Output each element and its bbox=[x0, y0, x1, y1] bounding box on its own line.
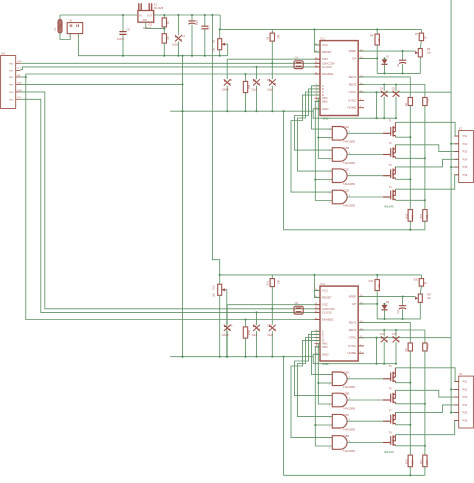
svg-text:R12: R12 bbox=[407, 459, 409, 464]
capacitor C10 100nF bbox=[204, 15, 206, 26]
wire phase A to gate bbox=[312, 331, 333, 374]
wire switch to GND rail bbox=[78, 34, 227, 56]
wire VREF bottom net bbox=[377, 57, 420, 74]
svg-text:C9: C9 bbox=[229, 324, 233, 328]
resistor R19 bbox=[376, 275, 378, 280]
svg-text:IRL640: IRL640 bbox=[384, 450, 394, 454]
svg-text:SYNC: SYNC bbox=[348, 344, 356, 348]
svg-text:74AC08N: 74AC08N bbox=[343, 449, 355, 453]
svg-text:ENABLE: ENABLE bbox=[322, 318, 333, 322]
svg-text:DCJ025: DCJ025 bbox=[154, 6, 164, 10]
wire sense vertical A bbox=[409, 106, 411, 210]
svg-text:IC2C: IC2C bbox=[343, 167, 349, 171]
DC jack X1 pins bbox=[139, 3, 152, 10]
svg-text:C13: C13 bbox=[380, 333, 385, 336]
IC4 left pin stubs bbox=[315, 289, 320, 291]
svg-text:PS6: PS6 bbox=[463, 174, 468, 177]
svg-text:EN: EN bbox=[17, 75, 20, 77]
AND gate IC2B bbox=[332, 148, 347, 162]
wire gate IC5A output bbox=[347, 378, 383, 380]
svg-text:CLOCK: CLOCK bbox=[322, 65, 332, 69]
svg-text:SV1: SV1 bbox=[1, 52, 6, 55]
capacitor C3 bbox=[402, 51, 404, 60]
svg-text:0R5: 0R5 bbox=[413, 214, 415, 219]
svg-text:SYNC: SYNC bbox=[348, 98, 356, 102]
svg-text:74AC08N: 74AC08N bbox=[343, 385, 355, 389]
transistor T7 IRL640 bbox=[383, 420, 390, 422]
AND gate IC2C bbox=[332, 169, 347, 183]
svg-text:74AC08N: 74AC08N bbox=[343, 140, 355, 144]
svg-text:33pF: 33pF bbox=[267, 333, 273, 337]
voltage regulator IC3 LM317L bbox=[138, 11, 154, 23]
IC1 right pin stubs bbox=[358, 50, 364, 52]
resistor R4 bbox=[376, 29, 378, 34]
AND gate IC5B bbox=[332, 393, 347, 407]
svg-text:RESET: RESET bbox=[322, 295, 332, 299]
svg-text:IC2A: IC2A bbox=[343, 125, 349, 129]
connector SV1 box bbox=[1, 56, 16, 109]
svg-text:100uF: 100uF bbox=[172, 44, 180, 47]
svg-text:R10: R10 bbox=[427, 343, 430, 348]
wire H/F net bbox=[358, 303, 377, 305]
svg-text:PS5: PS5 bbox=[463, 412, 468, 415]
svg-text:R19: R19 bbox=[369, 280, 374, 283]
wire gate IC2C output bbox=[347, 175, 383, 177]
wire sense vertical A bbox=[409, 351, 411, 455]
resistor R10 bbox=[423, 98, 427, 106]
AND gate IC2A bbox=[332, 127, 347, 141]
wire regulator ADJ bbox=[146, 22, 165, 28]
wire SENS1 net bbox=[358, 77, 410, 98]
svg-text:SEN1: SEN1 bbox=[349, 75, 357, 79]
svg-text:HOME: HOME bbox=[348, 106, 357, 110]
wire trimmer R16 to GND bus bbox=[219, 295, 221, 356]
svg-text:0R5: 0R5 bbox=[427, 214, 429, 219]
svg-text:HOME: HOME bbox=[348, 351, 357, 355]
wire INH1 to gates bbox=[318, 98, 332, 158]
wire phase C to gate bbox=[298, 92, 333, 171]
svg-text:74AC08N: 74AC08N bbox=[343, 203, 355, 207]
svg-text:CLOCK: CLOCK bbox=[322, 310, 332, 314]
resistor R12 sense bbox=[408, 210, 412, 222]
svg-text:IC5A: IC5A bbox=[343, 370, 349, 374]
capacitor C8 100nF bbox=[122, 15, 124, 31]
resistor R11 bbox=[245, 74, 247, 81]
transistor T5 IRL640 bbox=[383, 378, 390, 380]
svg-text:IN: IN bbox=[139, 14, 142, 17]
resistor R1 bbox=[163, 15, 165, 18]
svg-text:CTRL: CTRL bbox=[349, 90, 357, 94]
svg-text:SEN2: SEN2 bbox=[349, 328, 357, 332]
svg-text:UP: UP bbox=[352, 56, 356, 60]
wire VCC/RESET to IC1 bbox=[315, 29, 321, 52]
svg-text:GND: GND bbox=[322, 352, 328, 356]
wire CTRL net bbox=[358, 337, 451, 339]
resistor R10b bbox=[423, 343, 427, 351]
wire INH1 to gates bbox=[318, 344, 332, 404]
wire VCC/RESET to IC4 bbox=[315, 275, 321, 298]
capacitor C7 100uF bbox=[177, 15, 179, 35]
resistor R6b bbox=[408, 343, 412, 351]
wire GND long vertical bbox=[182, 56, 184, 357]
wire gate IC5D output bbox=[347, 442, 383, 444]
svg-text:C10: C10 bbox=[207, 25, 210, 30]
svg-text:74AC08N: 74AC08N bbox=[343, 428, 355, 432]
wire phase A to gate bbox=[312, 86, 333, 129]
AND gate IC5D bbox=[332, 436, 347, 450]
wire row4 GND bbox=[21, 83, 183, 85]
crystal Q1 bbox=[294, 61, 303, 69]
resistor R7 bbox=[420, 29, 422, 33]
svg-text:IC5D: IC5D bbox=[343, 434, 349, 438]
svg-text:PS3: PS3 bbox=[463, 151, 468, 154]
IC4 right pin stubs bbox=[358, 296, 364, 298]
wire phase D to gate bbox=[291, 341, 332, 438]
trimmer R16 bottom half bbox=[219, 275, 221, 284]
transistor T8 IRL640 bbox=[383, 442, 390, 444]
svg-text:R17: R17 bbox=[427, 293, 432, 296]
svg-text:R18: R18 bbox=[247, 331, 250, 336]
wire OSC net bbox=[227, 304, 320, 306]
junction dots oscillator nets bbox=[271, 308, 273, 310]
wire GND pin of IC1 bbox=[313, 109, 396, 118]
IC1 left pin stubs bbox=[315, 44, 320, 46]
wire GND bus bbox=[170, 110, 313, 112]
fuse F1 bbox=[59, 15, 61, 20]
trimmer R17 bbox=[418, 294, 422, 302]
wire sense vertical B bbox=[424, 106, 426, 210]
wire H/F net bbox=[358, 57, 377, 59]
svg-text:0R5: 0R5 bbox=[413, 460, 415, 465]
wire VS to connector pins 2 and 5 bbox=[451, 388, 459, 390]
wire drain C to connector pin4 bbox=[395, 159, 458, 167]
trimmer R5 bbox=[418, 49, 422, 57]
svg-text:3k3: 3k3 bbox=[277, 35, 280, 40]
svg-text:R15: R15 bbox=[266, 280, 269, 285]
svg-text:74AC08N: 74AC08N bbox=[343, 182, 355, 186]
svg-text:GND: GND bbox=[17, 82, 22, 84]
svg-text:CTRL: CTRL bbox=[349, 336, 357, 340]
svg-text:C1: C1 bbox=[229, 78, 233, 82]
wire phase B to gate bbox=[295, 334, 333, 395]
svg-text:PS4: PS4 bbox=[463, 158, 468, 161]
wire INH2 to gates bbox=[315, 101, 332, 200]
wire VCC long vertical to bottom half bbox=[212, 15, 421, 275]
svg-text:CW1: CW1 bbox=[17, 61, 23, 63]
wire drain B to connector pin3 bbox=[395, 390, 458, 397]
AND gate IC2D bbox=[332, 190, 347, 204]
wire CTRL net bbox=[358, 91, 451, 93]
svg-text:R13: R13 bbox=[421, 213, 423, 218]
svg-text:74AC08N: 74AC08N bbox=[343, 406, 355, 410]
svg-text:22pF: 22pF bbox=[252, 88, 258, 92]
svg-text:PS2: PS2 bbox=[463, 143, 468, 146]
wire INH2 to gates bbox=[315, 347, 332, 446]
svg-text:0R5: 0R5 bbox=[427, 460, 429, 465]
svg-text:IC2D: IC2D bbox=[343, 189, 349, 193]
svg-text:R20: R20 bbox=[414, 279, 419, 282]
resistor R15 bbox=[271, 275, 273, 279]
svg-text:R16: R16 bbox=[213, 285, 216, 290]
wire VREF net bbox=[358, 50, 415, 52]
wire gate IC5B output bbox=[347, 399, 383, 401]
svg-text:GND: GND bbox=[323, 116, 329, 120]
svg-text:100nF: 100nF bbox=[117, 37, 125, 41]
resistor R18 bbox=[245, 320, 247, 327]
wire GND pin of IC4 bbox=[313, 354, 396, 363]
svg-text:CW2: CW2 bbox=[17, 90, 23, 92]
svg-text:UP: UP bbox=[352, 302, 356, 306]
wire drain D to connector pin6 bbox=[395, 420, 458, 434]
transistor T3 IRL640 bbox=[383, 175, 390, 177]
wire gate IC2D output bbox=[347, 196, 383, 198]
svg-text:GND: GND bbox=[323, 362, 329, 366]
wire drain D to connector pin6 bbox=[395, 175, 458, 189]
AND gate IC5C bbox=[332, 414, 347, 428]
svg-text:R12: R12 bbox=[407, 213, 409, 218]
capacitor C16 100uF bbox=[191, 15, 193, 20]
wire VCC rail from regulator OUT bbox=[154, 14, 221, 16]
wire row1 CW/CCW to IC1 bbox=[21, 62, 320, 64]
capacitor C5 bbox=[395, 85, 397, 92]
transistor T4 IRL640 bbox=[383, 196, 390, 198]
wire GND bus bbox=[170, 356, 313, 358]
svg-text:100nF: 100nF bbox=[222, 88, 230, 92]
resistor R2 bbox=[162, 34, 166, 43]
wire row5 to bottom CW/CCW bbox=[21, 92, 320, 309]
svg-text:C2: C2 bbox=[253, 78, 257, 82]
trimmer R8 top bbox=[219, 29, 221, 38]
capacitor C6 22pF bbox=[271, 63, 273, 79]
wire trimmer R8 to GND rail bbox=[219, 50, 221, 56]
svg-text:IC5C: IC5C bbox=[343, 413, 349, 417]
wire row6 to bottom CLOCK bbox=[21, 99, 320, 312]
wire drain B to connector pin3 bbox=[395, 145, 458, 152]
diode D1 bbox=[384, 58, 386, 59]
wire OSC net bbox=[227, 58, 320, 60]
capacitor C15 bbox=[395, 330, 397, 337]
svg-text:C16: C16 bbox=[195, 20, 198, 25]
svg-text:SEN2: SEN2 bbox=[349, 83, 357, 87]
wire phase B to gate bbox=[295, 89, 333, 150]
svg-text:INH2: INH2 bbox=[322, 346, 328, 349]
svg-text:PS2: PS2 bbox=[463, 388, 468, 391]
svg-text:IC4: IC4 bbox=[321, 282, 326, 286]
svg-text:74AC08N: 74AC08N bbox=[343, 161, 355, 165]
svg-text:INH2: INH2 bbox=[322, 100, 328, 103]
svg-text:22pF: 22pF bbox=[267, 88, 273, 92]
svg-text:VCC: VCC bbox=[322, 288, 328, 292]
svg-text:100nF: 100nF bbox=[222, 333, 230, 337]
wire fuse to switch bbox=[60, 33, 70, 40]
svg-text:PS6: PS6 bbox=[463, 419, 468, 422]
capacitor C13 bbox=[383, 330, 385, 337]
wire gate IC2B output bbox=[347, 154, 383, 156]
svg-text:SEN1: SEN1 bbox=[349, 320, 357, 324]
wire gate IC2A output bbox=[347, 132, 383, 134]
wire phase D to gate bbox=[291, 95, 332, 192]
transistor T1 IRL640 bbox=[383, 132, 390, 134]
wire SENS2 net bbox=[358, 85, 425, 98]
svg-text:ADJ: ADJ bbox=[143, 19, 148, 22]
diode D2 bbox=[384, 304, 386, 305]
svg-text:C15: C15 bbox=[392, 333, 397, 336]
wire GND rail under sense resistors bbox=[284, 111, 425, 230]
wire VCC jog down bbox=[220, 15, 421, 29]
capacitor C1 100nF bbox=[226, 59, 228, 79]
crystal Q2 bbox=[294, 306, 303, 314]
wire row3 ENABLE shared bbox=[21, 76, 26, 78]
svg-text:C12: C12 bbox=[267, 324, 272, 328]
wire drain C to connector pin4 bbox=[395, 405, 458, 413]
wire VREF net bbox=[358, 296, 415, 298]
svg-text:OUT: OUT bbox=[147, 14, 153, 17]
svg-text:R11: R11 bbox=[247, 85, 250, 90]
svg-text:IC1: IC1 bbox=[321, 36, 326, 40]
capacitor C12 33pF bbox=[271, 309, 273, 325]
capacitor C11 33pF bbox=[256, 312, 258, 324]
wire gate IC5C output bbox=[347, 420, 383, 422]
wire source rows to sense bbox=[395, 136, 410, 138]
svg-text:PS1: PS1 bbox=[463, 381, 468, 384]
wire row2 CLOCK to IC1 bbox=[21, 67, 320, 70]
resistor R13 sense bbox=[423, 210, 427, 222]
capacitor C2 22pF bbox=[256, 67, 258, 79]
svg-text:PS5: PS5 bbox=[463, 166, 468, 169]
svg-text:VREF: VREF bbox=[348, 295, 356, 299]
connector X2 box bbox=[459, 131, 474, 183]
capacitor C4 bbox=[383, 85, 385, 92]
wire phase C to gate bbox=[298, 338, 333, 417]
transistor T6 IRL640 bbox=[383, 399, 390, 401]
svg-text:VREF: VREF bbox=[348, 49, 356, 53]
capacitor C9 100nF bbox=[226, 305, 228, 325]
wire SENS2 net bbox=[358, 330, 425, 343]
wire SENS1 net bbox=[358, 322, 410, 343]
wire sense vertical B bbox=[424, 351, 426, 455]
transistor T2 IRL640 bbox=[383, 154, 390, 156]
wire VS vertical from top edge bbox=[450, 0, 452, 413]
resistor R3 oscillator pull-up bbox=[271, 29, 273, 33]
wire drain A to connector pin1 bbox=[395, 368, 458, 382]
svg-text:ENABLE: ENABLE bbox=[322, 72, 333, 76]
svg-text:R10: R10 bbox=[427, 98, 430, 103]
wire VS to connector pins 2 and 5 bbox=[451, 143, 459, 145]
svg-text:PS4: PS4 bbox=[463, 404, 468, 407]
capacitor C14 bbox=[402, 297, 404, 306]
wire GND rail under sense resistors bbox=[284, 357, 425, 476]
svg-text:C14: C14 bbox=[397, 309, 400, 314]
controller IC4 box bbox=[320, 286, 358, 361]
svg-text:GND: GND bbox=[322, 107, 328, 111]
switch S1 box bbox=[67, 23, 83, 34]
svg-text:PS3: PS3 bbox=[463, 396, 468, 399]
svg-text:C11: C11 bbox=[253, 324, 258, 328]
wire source rows to sense bbox=[395, 382, 410, 384]
connector X3 box bbox=[459, 376, 474, 428]
resistor R20 bbox=[420, 275, 422, 279]
svg-text:33pF: 33pF bbox=[252, 333, 258, 337]
svg-text:RESET: RESET bbox=[322, 50, 332, 54]
svg-text:C8: C8 bbox=[127, 28, 131, 32]
svg-text:IRL640: IRL640 bbox=[384, 204, 394, 208]
svg-text:IC2B: IC2B bbox=[343, 146, 349, 150]
svg-text:X1: X1 bbox=[154, 2, 158, 6]
wire row3 vertical to bottom ENABLE bbox=[26, 77, 320, 320]
junction dots oscillator nets bbox=[271, 62, 273, 64]
controller IC1 box bbox=[320, 41, 358, 116]
resistor R6 bbox=[408, 98, 412, 106]
svg-text:VCC: VCC bbox=[322, 43, 328, 47]
wire VIN rail bbox=[60, 14, 138, 16]
svg-text:C6: C6 bbox=[267, 78, 271, 82]
svg-text:R13: R13 bbox=[421, 459, 423, 464]
resistor R13b sense bbox=[423, 455, 427, 467]
wire VREF bottom net bbox=[377, 302, 420, 319]
svg-text:3k3: 3k3 bbox=[277, 280, 280, 285]
wire drain A to connector pin1 bbox=[395, 122, 458, 136]
resistor R12b sense bbox=[408, 455, 412, 467]
svg-text:PS1: PS1 bbox=[463, 135, 468, 138]
svg-text:IC5B: IC5B bbox=[343, 392, 349, 396]
AND gate IC5A bbox=[332, 372, 347, 386]
